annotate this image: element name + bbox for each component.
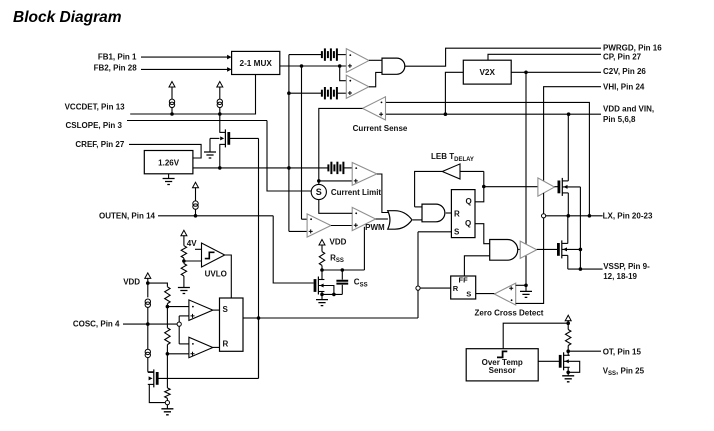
wire bus A to offset battery 2: [289, 92, 322, 94]
wire FF out to lower AND: [464, 256, 489, 276]
battery offset V2: [321, 90, 323, 97]
ground (UVLO divider): [178, 288, 190, 294]
svg-text:12, 18-19: 12, 18-19: [603, 272, 637, 281]
wire clock vertical: [417, 232, 419, 318]
svg-text:R: R: [453, 284, 459, 293]
summing node S: [311, 184, 326, 199]
wire to comp A -: [167, 306, 189, 308]
svg-text:VCCDET, Pin 13: VCCDET, Pin 13: [65, 103, 126, 112]
wire bulk rail to VSSP: [579, 187, 581, 269]
node C2V branch: [524, 71, 528, 75]
svg-text:S: S: [466, 289, 471, 298]
svg-text:UVLO: UVLO: [205, 269, 227, 278]
wire bus A to error amp +: [289, 230, 307, 232]
power FET Q3 (low side): [561, 240, 563, 258]
transistor Q1 (ref chopper): [224, 129, 226, 147]
current source I3 (OUTEN): [193, 182, 199, 188]
wire VDD to osc divider: [148, 283, 168, 287]
wire AND out to latch R: [446, 212, 452, 214]
svg-text:2-1 MUX: 2-1 MUX: [240, 59, 273, 68]
resistor R7 (soft start): [319, 252, 324, 266]
battery offset V1: [321, 51, 323, 58]
svg-text:S: S: [316, 187, 322, 197]
resistor R4 (osc top): [165, 287, 170, 304]
wire Q2 source to LX: [567, 193, 569, 216]
svg-text:PWM: PWM: [365, 223, 385, 232]
comparator U2 (PWRGD lower): [346, 75, 369, 98]
wire LX line to pin: [546, 215, 603, 217]
2-1 MUX box: [232, 51, 280, 74]
ground (1.26V box): [163, 179, 175, 185]
wire clock tap to FF R input: [420, 287, 451, 289]
wire 1.26V ref line: [193, 167, 328, 169]
wire FB1 to MUX: [141, 56, 228, 58]
svg-text:VDD: VDD: [330, 237, 347, 246]
lower gate driver U14: [520, 241, 537, 258]
zero cross comparator U15 (points left): [494, 283, 515, 305]
wire I2 down to ref FET: [219, 114, 221, 132]
svg-text:VDD: VDD: [123, 277, 140, 286]
wire Q4 drain: [568, 354, 569, 356]
wire oscillator out (clock line): [243, 317, 418, 319]
RS latch U11: [451, 190, 475, 238]
wire OR out to AND: [413, 219, 422, 221]
wire Q4 source to ground: [567, 367, 569, 375]
wire OUTEN to soft-start FET gate: [273, 216, 313, 283]
transistor Q5 (osc discharge): [153, 369, 155, 387]
wire zero cross + input: [516, 284, 526, 286]
wire summer out to PWM -: [319, 200, 352, 214]
osc comparator U17 (upper): [189, 300, 213, 321]
ground (Q1 bulk): [204, 152, 216, 158]
resistor R2 (UVLO top): [181, 246, 186, 258]
comparator U1 (PWRGD upper): [346, 49, 369, 73]
svg-text:OT, Pin 15: OT, Pin 15: [603, 347, 642, 356]
svg-text:Current Sense: Current Sense: [353, 124, 408, 133]
wire bus A to offset battery 1: [289, 54, 322, 56]
wire current sense out to summer: [319, 108, 363, 184]
error amp U6: [307, 214, 331, 237]
1.26V reference box: [144, 151, 193, 174]
current source I5 (discharge): [145, 349, 150, 354]
wire to comp B +: [167, 353, 189, 355]
wire CREF to 1.26V box: [129, 144, 201, 158]
wire soft start node: [322, 269, 364, 271]
flip-flop FF box: [451, 276, 476, 299]
node COSC / current sources: [146, 322, 150, 326]
wire bus B down to error amp -: [301, 66, 303, 219]
wire AND out to PWRGD pin: [405, 48, 601, 66]
wire Q2 bulk: [562, 186, 580, 188]
wire latch Qbar to lower AND: [475, 224, 490, 244]
wire soft start bottom node: [322, 293, 342, 295]
svg-text:S: S: [454, 228, 460, 237]
wire comp2 out to AND: [369, 72, 382, 86]
power FET Q2 (high side): [561, 178, 563, 196]
V2X box: [463, 60, 511, 84]
wire VDD up to V2X input: [445, 72, 463, 114]
node soft start top: [320, 268, 324, 272]
node osc comp B +: [166, 352, 170, 356]
supply arrow 4V: [181, 230, 187, 236]
transistor Q6 (soft start): [317, 277, 319, 295]
ground (soft start): [316, 300, 328, 306]
wire LEB to AND input: [415, 206, 422, 208]
wire comp B to osc latch R: [213, 346, 220, 348]
svg-text:R: R: [454, 209, 460, 218]
wire Q3 source to VSSP: [567, 255, 569, 269]
wire current sense - to LX: [386, 102, 590, 215]
wire VSSP line to pin: [568, 268, 603, 270]
wire CSLOPE pin line: [127, 120, 267, 122]
capacitor CSS: [336, 281, 348, 284]
svg-text:OUTEN, Pin 14: OUTEN, Pin 14: [99, 211, 156, 220]
svg-text:R: R: [223, 340, 229, 349]
svg-text:Current Limit: Current Limit: [331, 188, 382, 197]
node osc FET source tap: [165, 401, 169, 405]
wire CSLOPE down to summer: [267, 121, 311, 192]
svg-text:Q: Q: [465, 219, 471, 228]
wire LEB out down to AND: [415, 171, 443, 207]
wire battery1 to comparator1 -: [337, 54, 346, 56]
wire COSC tap to comp B -: [179, 343, 189, 345]
node COSC tap circle: [177, 322, 181, 326]
wire battery3 to current limit -: [343, 167, 352, 169]
node VSSP / bulk rail: [579, 267, 583, 271]
svg-text:FF: FF: [459, 275, 469, 284]
svg-text:FB1, Pin 1: FB1, Pin 1: [98, 53, 137, 62]
wire AND to lower driver: [518, 248, 520, 250]
node LX / current sense: [588, 214, 592, 218]
node CSS top: [341, 268, 345, 272]
wire zero cross out to FF S: [476, 293, 495, 295]
node clock tap to FF R: [416, 286, 420, 290]
resistor R1 (OT pullup): [566, 330, 571, 346]
wire current sense + / VDD VIN pin: [386, 113, 602, 115]
pulse symbol (over temp): [497, 351, 507, 357]
wire V2X top to CP pin: [488, 54, 601, 60]
node Q4 source/bulk: [566, 371, 570, 375]
node OT: [566, 349, 570, 353]
wire Q to upper driver input: [484, 186, 538, 188]
node VDD / V2X input: [444, 112, 448, 116]
wire current limit out to OR gate: [377, 174, 389, 213]
transistor Q4 (over temp output): [563, 352, 565, 370]
wire driver to Q2 gate: [554, 186, 559, 188]
svg-text:Q: Q: [466, 197, 472, 206]
LEB delay buffer U10 (points left): [442, 164, 460, 179]
svg-text:4V: 4V: [187, 239, 197, 248]
svg-text:FB2, Pin 28: FB2, Pin 28: [94, 64, 138, 73]
supply arrow VDD (soft start): [319, 240, 325, 246]
wire Q1 source to ref line: [219, 144, 221, 168]
svg-text:Block Diagram: Block Diagram: [13, 9, 122, 26]
wire VCCDET to MUX select: [130, 75, 255, 115]
node supply / sensor feed: [566, 321, 570, 325]
UVLO comparator U16: [202, 243, 225, 267]
ground (zero cross): [520, 291, 532, 297]
resistor R5 (osc middle): [165, 328, 170, 345]
wire clock branch down: [258, 318, 260, 378]
wire Q3 bulk to rail: [562, 248, 581, 250]
svg-text:CSLOPE, Pin 3: CSLOPE, Pin 3: [66, 121, 123, 130]
AND gate U13 (low-side enable): [490, 240, 518, 261]
svg-text:VDD and VIN,: VDD and VIN,: [603, 105, 654, 114]
svg-text:VSSP, Pin 9-: VSSP, Pin 9-: [603, 262, 650, 271]
current source I1: [169, 82, 175, 88]
wire Q1 bulk to ground: [210, 137, 219, 139]
osc comparator U18 (lower): [189, 337, 213, 358]
wire Q5 source to tap: [149, 384, 165, 402]
wire UVLO out to osc latch: [225, 255, 232, 298]
wire Q3 drain to LX: [567, 216, 569, 244]
wire OT line to pin: [568, 350, 601, 352]
wire C2V down to zero-cross +: [525, 72, 527, 285]
wire zero cross - to LX tap: [516, 218, 544, 304]
wire supply to over temp sensor: [503, 323, 568, 349]
wire V2X out to C2V pin: [511, 71, 601, 73]
node LX tap circle: [542, 214, 546, 218]
resistor R3 (UVLO bottom): [181, 264, 186, 277]
svg-text:Sensor: Sensor: [489, 366, 516, 375]
node Q6 bulk: [332, 293, 336, 297]
svg-text:Zero Cross Detect: Zero Cross Detect: [475, 308, 544, 317]
OR gate U8: [388, 211, 412, 230]
wire COSC pin line: [123, 323, 177, 325]
current sense amp U4 (points left): [363, 97, 386, 120]
current limit comparator U5: [352, 163, 377, 186]
node bus A / 1.26V line: [287, 166, 291, 170]
wire comp1 out to AND: [369, 59, 382, 61]
node Q1 / ref line: [218, 166, 222, 170]
current source I4 (charge): [145, 299, 150, 304]
wire COSC tap to comp A +: [178, 316, 180, 322]
node zero cross + / C2V / ground: [524, 284, 528, 288]
svg-text:S: S: [223, 305, 229, 314]
node Q / upper driver: [482, 185, 486, 189]
wire error amp out to PWM +: [331, 225, 352, 227]
wire VHI pin to upper driver: [544, 87, 601, 182]
node LX / FET junction: [567, 214, 571, 218]
node osc comp A -: [166, 305, 170, 309]
wire driver to Q3 gate: [537, 248, 559, 250]
AND gate U9 (reset path): [422, 204, 445, 222]
wire Q6 bulk loop: [318, 286, 334, 295]
wire 1.26V box to ground: [168, 174, 170, 179]
wire to current limit +: [319, 180, 352, 182]
node comp1+ / comp2- branch: [338, 64, 342, 68]
wire clock to Q5 gate: [157, 377, 258, 379]
wire latch Q up to LEB: [475, 171, 484, 201]
osc SR latch U19: [220, 298, 244, 351]
supply arrow VDD (osc): [145, 273, 151, 279]
node VDD / divider feed: [146, 281, 150, 285]
hysteresis symbol (UVLO): [205, 252, 215, 258]
svg-text:CP, Pin 27: CP, Pin 27: [603, 52, 642, 61]
AND gate U3 (PWRGD): [382, 58, 405, 74]
node Q6 source: [320, 293, 324, 297]
node summer / current limit +: [317, 179, 321, 183]
wire sensor to Q4 gate: [538, 360, 560, 362]
svg-text:PWRGD, Pin 16: PWRGD, Pin 16: [603, 43, 662, 52]
supply arrow (over temp): [565, 315, 571, 321]
Over Temp Sensor box: [466, 349, 538, 381]
wire soft start to PWM clamp: [363, 227, 365, 270]
wire Q to LEB input: [460, 170, 484, 172]
wire Q2 drain to VDD: [567, 114, 569, 181]
wire Q1 gate down to clock line: [258, 138, 260, 378]
resistor R6 (osc bottom): [165, 388, 170, 398]
svg-text:CREF, Pin 27: CREF, Pin 27: [75, 140, 124, 149]
PWM comparator U7: [352, 207, 375, 230]
node clock / Q1 gate branch: [257, 316, 261, 320]
svg-text:VHI, Pin 24: VHI, Pin 24: [603, 83, 645, 92]
svg-text:LX, Pin 20-23: LX, Pin 20-23: [603, 212, 653, 221]
svg-text:V2X: V2X: [479, 68, 495, 77]
wire MUX output to comparator1 +: [280, 65, 347, 67]
current source I2: [217, 82, 223, 88]
wire divider to UVLO: [184, 260, 202, 262]
wire OUTEN pin line: [158, 215, 273, 217]
wire UVLO top input stub: [195, 248, 202, 250]
wire PWM out to OR gate: [376, 218, 388, 220]
node MUX out / bus B: [300, 64, 304, 68]
wire comp A to osc latch S: [213, 309, 220, 311]
ground (oscillator): [161, 409, 173, 415]
node VDD / upper FET drain: [567, 112, 571, 116]
svg-text:C2V, Pin 26: C2V, Pin 26: [603, 67, 646, 76]
wire Q1 gate lead: [229, 137, 259, 139]
node bulk rail / Q3 bulk: [579, 248, 583, 252]
svg-text:Pin 5,6,8: Pin 5,6,8: [603, 115, 636, 124]
wire bus A (1.26V ref): [288, 55, 290, 232]
wire to comparator2 -: [340, 66, 347, 81]
node bus A / battery2 line: [287, 91, 291, 95]
wire FB2 to MUX: [141, 68, 228, 70]
svg-text:COSC, Pin 4: COSC, Pin 4: [73, 320, 120, 329]
upper gate driver U12: [538, 178, 555, 196]
battery offset V3 (current limit): [327, 164, 329, 171]
wire Q4 bulk loop: [564, 361, 580, 372]
svg-text:1.26V: 1.26V: [158, 158, 180, 167]
wire battery2 to comparator2 +: [337, 92, 346, 94]
wire driver low rail to LX tap: [543, 193, 545, 214]
ground (Q4): [562, 376, 574, 382]
wire clock to latch S: [418, 231, 451, 233]
wire I5 to Q5 drain: [148, 371, 154, 373]
node UVLO divider: [182, 259, 186, 263]
